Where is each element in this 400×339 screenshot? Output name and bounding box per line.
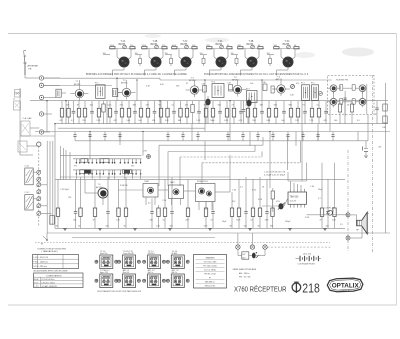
- label values row right: [264, 172, 286, 177]
- svg-text:C48: C48: [382, 127, 385, 129]
- capacitor C93 27: [211, 205, 215, 228]
- pinout diagram row1 col1 TF (1): [95, 251, 118, 269]
- transformer FI 3 IF can: [246, 88, 257, 102]
- svg-text:BF194: BF194: [189, 80, 196, 82]
- wire bus bottom 1: [55, 227, 345, 229]
- transformer FI 5 IF can: [311, 83, 319, 101]
- capacitor C99 1,8K: [265, 205, 270, 228]
- svg-text:POUR RAPPORT DE LONGUEURS: POUR RAPPORT DE LONGUEURS D'ONDES PO GO …: [204, 73, 309, 76]
- svg-text:82: 82: [159, 105, 161, 107]
- resistor R22 1nF: [138, 101, 142, 124]
- capacitor C13 interstage: [235, 55, 238, 66]
- transistor Q11 AF125: [272, 80, 290, 96]
- pinout diagram row2 col1 TO1 AC-L2: [95, 269, 118, 288]
- wire connector bottom left: [41, 233, 48, 246]
- transistor Q11 label T 5 AF125: [276, 77, 283, 82]
- wire IC feeds: [288, 163, 307, 189]
- transformer TR1 driver: [143, 180, 158, 205]
- resistor R23 470: [146, 101, 150, 124]
- wire bus bottom 2: [47, 232, 390, 234]
- svg-text:BF195: BF195: [74, 84, 81, 86]
- svg-text:330: 330: [260, 105, 263, 107]
- wire stage 3 emitter return: [175, 67, 187, 76]
- label caption bobines: [86, 73, 187, 76]
- svg-text:0,2: 0,2: [317, 105, 320, 107]
- label PO GO: [74, 166, 135, 168]
- table frequencies: [194, 255, 227, 289]
- table commutateur: [34, 273, 84, 288]
- transistor Q10 label T 4 BF194: [232, 77, 239, 82]
- resistor R17 0,05: [108, 101, 112, 124]
- op-amp U1 TBA630 audio IC: [288, 189, 307, 208]
- trimmer capacitor CT5: [251, 45, 255, 49]
- svg-text:C36: C36: [202, 83, 205, 85]
- wire bus AGC: [44, 85, 112, 87]
- svg-text:BF195: BF195: [121, 83, 128, 85]
- svg-text:87,5 À 108 Mc/s: 87,5 À 108 Mc/s: [42, 278, 55, 281]
- wire battery link: [238, 249, 265, 255]
- transformer FI 1 IF can: [95, 83, 105, 99]
- capacitor C102 150: [326, 205, 330, 228]
- coil L6 input: [113, 89, 123, 97]
- wire stage 1 emitter return: [113, 67, 125, 76]
- pinout diagram row2 col2 AF1 L2: [118, 269, 141, 288]
- battery BT1 3x1.5V: [296, 252, 322, 265]
- svg-text:AF125: AF125: [276, 78, 283, 81]
- wire vertical interconnects: [47, 78, 358, 228]
- svg-text:TBA 630: TBA 630: [290, 195, 300, 198]
- capacitor C66 4,7K: [238, 101, 243, 124]
- svg-text:150: 150: [200, 53, 203, 55]
- trimmer capacitor CT4: [220, 45, 224, 49]
- resistor R14 22K: [82, 101, 86, 124]
- node chassis junction 1: [346, 213, 350, 217]
- wire dial cord dashed: [267, 246, 332, 248]
- coil L2a / L2b tuned pair: [110, 45, 137, 49]
- capacitor C70 decoupling: [271, 132, 274, 141]
- resistor R32 10nF: [210, 101, 215, 124]
- svg-text:10: 10: [78, 226, 80, 228]
- wire left column links: [15, 93, 40, 155]
- wire gang links: [33, 172, 51, 213]
- capacitor C73 decoupling: [316, 132, 319, 141]
- resistor R10 470: [59, 101, 63, 124]
- diode D3: [291, 85, 295, 89]
- resistor R71 470: [186, 205, 190, 228]
- capacitor C78 47K: [323, 101, 327, 124]
- svg-text:C 52 C 54 R 40 220 C 58: C 52 C 54 R 40 220 C 58: [264, 172, 285, 174]
- label audio values: [60, 185, 323, 205]
- svg-text:470: 470: [232, 201, 235, 203]
- transistor Q5 label T 3B BF254: [247, 41, 254, 46]
- resistor R44: [338, 101, 341, 124]
- trimmer capacitor CT6: [287, 45, 291, 49]
- svg-text:C 60: C 60: [232, 190, 236, 192]
- resistor R31 39K: [204, 101, 208, 124]
- wire bus lower: [75, 140, 368, 142]
- svg-text:15: 15: [163, 220, 165, 222]
- svg-text:120: 120: [244, 226, 247, 228]
- resistor R16 2,2K: [96, 101, 101, 124]
- node supply tap C: [263, 245, 267, 249]
- svg-text:GO ANT. FERRITE: GO ANT. FERRITE: [42, 285, 58, 288]
- svg-text:C38: C38: [262, 82, 265, 84]
- trimmer capacitor CT1: [123, 45, 127, 49]
- svg-text:C PO: C PO: [34, 286, 39, 288]
- wire stage 2 drops: [135, 49, 164, 60]
- label serie block: [233, 268, 257, 278]
- node supply tap A: [236, 233, 240, 249]
- svg-text:PLATINE FM: PLATINE FM: [336, 79, 348, 82]
- svg-text:Agen 128: Agen 128: [100, 271, 108, 274]
- resistor R43 680: [289, 101, 293, 124]
- svg-text:Bout 50: Bout 50: [123, 271, 129, 274]
- potentiometer P2 on-off: [252, 252, 259, 259]
- transformer FI 2 IF can: [212, 81, 225, 97]
- svg-text:330: 330: [270, 226, 273, 228]
- node chassis junction 2: [346, 236, 350, 240]
- potentiometer P1 volume: [276, 201, 285, 210]
- node junction dots: [46, 78, 270, 133]
- trimmer capacitor CT3: [185, 45, 189, 49]
- svg-text:AM 480 kc: AM 480 kc: [205, 281, 214, 284]
- svg-text:+9V: +9V: [143, 151, 147, 153]
- resistor R34 8,2K: [224, 101, 229, 124]
- coil L5a / L5b tuned pair: [207, 45, 234, 49]
- resistor R74 68: [230, 205, 234, 228]
- svg-text:(3×1,5V): (3×1,5V): [303, 252, 311, 255]
- svg-text:FM 10,7 Mc: FM 10,7 Mc: [205, 286, 216, 288]
- svg-text:C 64: C 64: [310, 186, 314, 188]
- svg-text:0,05: 0,05: [108, 105, 112, 107]
- capacitor C61 decoupling: [88, 132, 91, 141]
- svg-text:PARIS: PARIS: [340, 289, 350, 292]
- capacitor C84 220: [106, 205, 110, 228]
- capacitor C69 330: [260, 101, 264, 124]
- node gang top: [37, 142, 41, 146]
- svg-text:FM : 10,7 Mc: FM : 10,7 Mc: [239, 276, 251, 278]
- svg-text:T.AF2: T.AF2: [170, 181, 176, 184]
- antenna ANT1 telescopic: [23, 51, 39, 79]
- transistor Q3 BF255: [181, 57, 191, 67]
- wire bus bottom dashed: [35, 242, 330, 244]
- resistor R40 6,8K: [266, 101, 271, 124]
- transistor T 9 FM stage: [330, 98, 337, 107]
- capacitor C62 decoupling: [103, 132, 106, 141]
- resistor R26 3,3K: [165, 101, 170, 124]
- svg-text:R 52: R 52: [252, 190, 256, 192]
- wire bus mid 4: [20, 135, 55, 137]
- capacitor C72 2nF: [281, 101, 285, 124]
- svg-text:BL AM: BL AM: [172, 252, 178, 255]
- svg-text:T 2A: T 2A: [121, 40, 126, 43]
- svg-text:15-8-70: 15-8-70: [290, 201, 297, 203]
- svg-text:100µF: 100µF: [285, 221, 291, 223]
- transistor Q2 BF254: [151, 57, 161, 67]
- svg-text:0,05: 0,05: [160, 84, 164, 86]
- resistor R28 68K: [178, 101, 182, 124]
- capacitor C2 block: [21, 121, 30, 136]
- label table note: [33, 269, 68, 272]
- label title X760 RECEPTEUR: [234, 284, 287, 293]
- svg-text:GAMMES: GAMMES: [206, 256, 216, 259]
- resistor R19 220: [120, 101, 124, 124]
- svg-text:0,5: 0,5: [357, 120, 360, 122]
- resistor R29 120: [185, 101, 189, 124]
- variable capacitor CV2: [25, 192, 34, 210]
- svg-text:T 2B: T 2B: [153, 41, 158, 43]
- wire stepped feed 1: [159, 137, 263, 186]
- capacitor C99 rail bypass: [363, 141, 369, 157]
- label caption rapport: [204, 73, 309, 76]
- capacitor C65 decoupling: [181, 132, 184, 141]
- wire audio couplings: [85, 179, 288, 206]
- pinout diagram row1 col2 TO-13 (2,3): [118, 251, 141, 269]
- resistor R60 1K: [56, 205, 60, 228]
- svg-text:T.AF1: T.AF1: [144, 180, 150, 183]
- pinout diagram row2 col3 AF1 1-2: [143, 269, 166, 288]
- capacitor C81 150: [73, 205, 77, 228]
- svg-text:100: 100: [90, 105, 93, 107]
- capacitor C31 FM: [352, 84, 367, 115]
- capacitor C75: [50, 216, 55, 225]
- capacitor C14 interstage: [269, 55, 272, 66]
- svg-text:LES AJUSTAGES EFFECTUÉS EN USI: LES AJUSTAGES EFFECTUÉS EN USINE: [33, 269, 68, 272]
- table gammes d'ondes: [33, 255, 79, 269]
- capacitor C95 COUPL HP: [307, 207, 349, 215]
- capacitor C60 1,5K: [196, 101, 201, 124]
- svg-text:C37: C37: [228, 82, 231, 84]
- wire bus mid 2: [58, 127, 205, 129]
- pinout diagram row2 col4 AF1 1 D: [166, 269, 189, 288]
- resistor R47 0,2: [317, 101, 321, 124]
- variable capacitor CV gang sections: [37, 170, 41, 216]
- capacitor C45 100: [90, 101, 94, 124]
- jack/switch contacts J1-J5 column: [39, 76, 43, 134]
- transistor Q7 BF195: [70, 80, 88, 101]
- capacitor C67: [242, 101, 245, 124]
- coil L6a / L6b tuned pair: [238, 45, 265, 49]
- svg-text:47: 47: [320, 220, 322, 222]
- svg-text:150: 150: [135, 53, 138, 55]
- resistor R37 0,05: [246, 101, 250, 124]
- wire comb drops: [76, 174, 140, 179]
- svg-text:2,5: 2,5: [340, 224, 343, 226]
- svg-text:150: 150: [73, 220, 76, 222]
- capacitor C63 560: [218, 101, 222, 124]
- resistor R62 10: [78, 205, 82, 228]
- wire chassis boundary dash-dot: [371, 75, 373, 252]
- wire stage 2 emitter return: [145, 67, 157, 76]
- svg-text:4,7: 4,7: [318, 198, 321, 200]
- resistor R41 56K: [274, 101, 278, 124]
- transformer TR4 HP: [242, 252, 249, 259]
- svg-text:T 3A: T 3A: [218, 40, 223, 43]
- resistor R38 18K: [252, 101, 256, 124]
- svg-text:SÉRIE SANS PROBLÈME: SÉRIE SANS PROBLÈME: [233, 268, 257, 271]
- wire stage 3 drops: [165, 49, 194, 60]
- resistor R72 3,9K: [204, 205, 209, 228]
- capacitor C30 FM: [344, 85, 356, 116]
- transistor Q8 label T 2 BF195: [121, 80, 128, 85]
- svg-text:150: 150: [326, 226, 329, 228]
- resistor R50: [271, 188, 274, 212]
- svg-text:BF194: BF194: [232, 80, 239, 82]
- transistor Q5 BF254: [247, 57, 257, 67]
- svg-text:150: 150: [267, 53, 270, 55]
- svg-text:( TABLEAU A FB ): ( TABLEAU A FB ): [42, 250, 58, 253]
- resistor R1 block: [18, 141, 27, 152]
- svg-text:R 58: R 58: [305, 217, 309, 219]
- svg-text:COMMUTATEUR: COMMUTATEUR: [46, 274, 62, 277]
- coil L3a / L3b tuned pair: [142, 45, 169, 49]
- capacitor C72 decoupling: [301, 132, 304, 141]
- resistor R47: [191, 101, 194, 124]
- transistor Q6 label T 3C BF255: [283, 41, 290, 46]
- wire bus main supply: [30, 100, 388, 102]
- svg-text:68: 68: [230, 226, 232, 228]
- svg-text:27: 27: [211, 220, 213, 222]
- capacitor C66: [375, 101, 379, 124]
- ground symbols on bus: [63, 228, 327, 230]
- wire chassis dash-dot left: [347, 150, 349, 252]
- resistor R13 1K: [77, 101, 81, 124]
- svg-text:COUPLAGE PILES: COUPLAGE PILES: [298, 262, 316, 265]
- capacitor C74 decoupling: [331, 132, 334, 141]
- capacitor C67 decoupling: [226, 132, 229, 141]
- svg-text:BdL 5c: BdL 5c: [172, 272, 178, 274]
- transistor Q6 BF255: [283, 57, 293, 67]
- svg-text:GO 150 à 280: GO 150 à 280: [204, 261, 217, 263]
- label table1 title: [37, 247, 66, 253]
- capacitor C96 120: [244, 205, 248, 228]
- svg-text:0,1 50µF 1,2K 4,7 10: 0,1 50µF 1,2K 4,7 100µF: [264, 174, 286, 176]
- transformer TR3 output stage: [196, 181, 216, 210]
- resistor R46 2,7K: [309, 101, 314, 124]
- svg-text:BF194-5: BF194-5: [148, 253, 155, 255]
- transformer FI 4 IF can: [301, 83, 310, 101]
- svg-text:470: 470: [146, 105, 149, 107]
- svg-text:PO: PO: [74, 166, 77, 168]
- resistor R11 10K: [66, 101, 70, 124]
- wire stage 5 emitter return: [241, 67, 253, 76]
- capacitor C75 91: [303, 101, 307, 124]
- resistor R77 0,5: [251, 205, 255, 228]
- transistor Q8 BF195: [118, 80, 136, 100]
- svg-text:C 55 50µF: C 55 50µF: [60, 189, 70, 191]
- capacitor C57 0,1: [172, 101, 176, 124]
- svg-text:120: 120: [185, 105, 188, 107]
- svg-text:OPTALIX: OPTALIX: [332, 283, 360, 290]
- svg-text:0,1: 0,1: [240, 187, 243, 189]
- svg-text:R 48 220: R 48 220: [120, 185, 128, 187]
- transistor Q1 BF254: [119, 57, 129, 67]
- wire rail right drop: [367, 115, 369, 141]
- transistor Q10 BF194: [229, 80, 247, 97]
- label header smudge: [145, 34, 374, 58]
- resistor R20 5,6K: [126, 101, 131, 124]
- svg-text:5,95 À 17,3 Mc/s: 5,95 À 17,3 Mc/s: [42, 281, 56, 284]
- coil L4a / L4b tuned pair: [172, 45, 199, 49]
- wire left risers: [47, 141, 53, 233]
- svg-text:39: 39: [258, 226, 260, 228]
- svg-text:330: 330: [150, 220, 153, 222]
- svg-text:PUSH PULL: PUSH PULL: [197, 181, 209, 183]
- label misc values: [334, 105, 385, 129]
- transistor Q4 label T 3A BF254: [216, 40, 223, 46]
- trimmer capacitor CT2: [155, 45, 159, 49]
- wire speaker leads: [350, 215, 362, 238]
- label number 218: [302, 281, 320, 295]
- svg-text:100: 100: [334, 120, 337, 122]
- svg-text:CORRECTION À POUSSOIRS: CORRECTION À POUSSOIRS: [37, 247, 66, 250]
- capacitor C1 input block: [15, 88, 21, 152]
- wire bus RF top: [44, 78, 332, 80]
- wire stepped feed 2: [168, 145, 255, 186]
- capacitor C71 electrolytic: [246, 97, 251, 124]
- svg-text:X760 RÉCEPTEUR: X760 RÉCEPTEUR: [234, 284, 287, 293]
- transistor Q2 label T 2B BF254: [151, 41, 158, 46]
- wire bus bottom 3: [72, 237, 215, 239]
- svg-text:T 3C: T 3C: [285, 41, 290, 43]
- capacitor C11 interstage: [170, 55, 173, 66]
- transistor T10 FM stage: [359, 98, 366, 107]
- wire tuning gang dashed: [38, 146, 40, 226]
- pinout diagram row1 col3 TF -14: [143, 251, 166, 269]
- logo phi mark: [292, 282, 301, 293]
- diode D1 detector: [318, 92, 323, 96]
- svg-text:0,5: 0,5: [251, 220, 254, 222]
- svg-text:LES TRANSISTORS SONT VUS P: LES TRANSISTORS SONT VUS PAR DESSOUS: [97, 290, 142, 293]
- transistor Q11 AC128 power: [92, 184, 108, 205]
- resistor R66 56: [124, 205, 128, 228]
- capacitor C63 decoupling: [118, 132, 121, 141]
- capacitor C36: [202, 83, 207, 92]
- speaker LS1: [356, 212, 369, 234]
- svg-text:BdL 5c: BdL 5c: [148, 272, 154, 274]
- resistor R78 39: [258, 205, 262, 228]
- wire bus mid 3: [35, 131, 390, 133]
- resistor R65 1,2K: [116, 205, 121, 228]
- svg-text:218: 218: [302, 281, 320, 295]
- svg-text:56: 56: [124, 226, 126, 228]
- wire stage 4 emitter return: [210, 67, 222, 76]
- node supply tap B: [250, 233, 254, 249]
- svg-text:AC128: AC128: [96, 186, 103, 189]
- resistor R45: [350, 101, 353, 124]
- svg-text:560: 560: [218, 105, 221, 107]
- svg-text:GO: GO: [131, 166, 135, 168]
- switch SW2 band contacts row: [73, 170, 142, 175]
- svg-text:680: 680: [289, 105, 292, 107]
- pinout diagram row1 col4 TF -14: [166, 251, 189, 269]
- switch SW1 band contacts row: [73, 159, 142, 164]
- wire FM module internal: [328, 88, 363, 102]
- svg-text:A FM: A FM: [34, 278, 39, 281]
- svg-text:+9V: +9V: [378, 147, 382, 149]
- coil L20 FM: [340, 85, 343, 91]
- svg-text:470: 470: [59, 120, 62, 122]
- FM tuner module outline: [328, 76, 375, 115]
- svg-text:P 505 . 1605 kc/s: P 505 . 1605 kc/s: [33, 262, 48, 264]
- logo OPTALIX PARIS badge: [327, 278, 363, 292]
- resistor R25 82: [159, 101, 163, 124]
- capacitor C87 330: [150, 205, 154, 228]
- svg-text:100: 100: [170, 226, 173, 228]
- coil L7a / L7b tuned pair: [274, 45, 301, 49]
- transistor Q9 BF194: [186, 80, 204, 97]
- transistor T 7 FM stage: [330, 85, 337, 94]
